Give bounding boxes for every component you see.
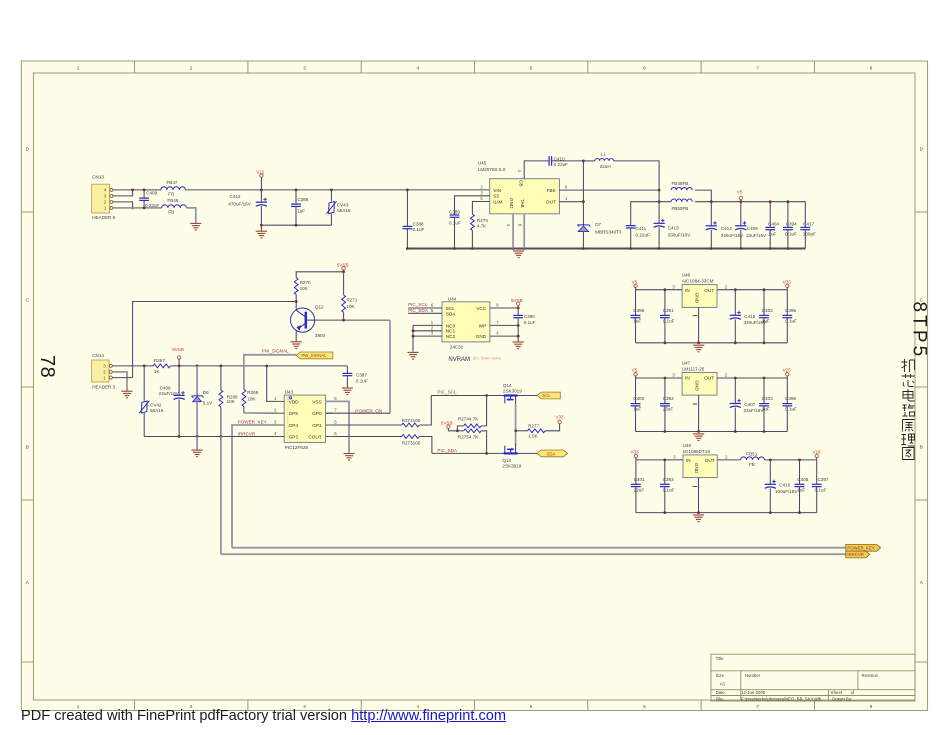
svg-text:C406: C406	[160, 385, 171, 390]
svg-text:C398: C398	[297, 197, 308, 202]
svg-text:C389: C389	[449, 209, 460, 214]
capacitor C400	[631, 378, 645, 432]
svg-text:U48: U48	[683, 443, 692, 448]
svg-text:OUT: OUT	[705, 458, 715, 463]
svg-text:Size: Size	[716, 673, 725, 678]
capacitor C398	[291, 190, 309, 225]
svg-text:SDA: SDA	[547, 451, 556, 456]
capacitor C393	[660, 460, 675, 513]
svg-text:GND: GND	[509, 198, 514, 209]
junction V5 rail at C414	[710, 200, 713, 203]
transistor Q14 2SK3019 MOSFET	[503, 383, 522, 404]
wire 5VSB to R274/R275 node	[448, 428, 457, 431]
wire V12 rail FB47 to U45 VIN	[186, 189, 490, 191]
svg-text:L1: L1	[601, 152, 607, 157]
wire CN14 pin1 to Q12 collector node	[133, 302, 297, 378]
wire U46 input rail	[636, 289, 683, 291]
power symbol V25	[783, 368, 792, 378]
U43 right pin numbers 8 7 6 5	[334, 396, 337, 436]
wire R274 left vertical	[457, 426, 463, 431]
svg-text:Title: Title	[716, 656, 725, 661]
U45 GND pin stub	[512, 214, 514, 249]
svg-text:4.7K: 4.7K	[477, 224, 487, 229]
junction VCC node	[517, 307, 520, 310]
wire Q14 drain to Q13 drain	[515, 404, 517, 445]
svg-text:Q14: Q14	[503, 383, 512, 388]
svg-text:C399: C399	[633, 308, 644, 313]
wire switch node to L1	[583, 160, 595, 162]
svg-text:TAB: TAB	[520, 199, 525, 208]
svg-text:PIC_SDA: PIC_SDA	[408, 308, 429, 313]
capacitor C390	[513, 308, 535, 341]
svg-text:CV42: CV42	[150, 402, 162, 407]
sheet title glyph dian	[903, 389, 915, 401]
junction V12/C412	[260, 189, 263, 192]
svg-text:PIC_SCL: PIC_SCL	[437, 389, 457, 394]
svg-text:330uF/16V: 330uF/16V	[668, 233, 691, 238]
svg-text:R267: R267	[154, 358, 165, 363]
svg-text:HEADER 6: HEADER 6	[92, 215, 115, 220]
junction bus at C412	[260, 224, 263, 227]
svg-text:R2744.7K: R2744.7K	[458, 416, 479, 421]
capacitor C412	[228, 190, 267, 225]
junction NC2	[412, 335, 415, 338]
svg-text:FB: FB	[168, 210, 174, 215]
capacitor C405	[795, 460, 809, 513]
wire PIC_SDA row	[432, 452, 504, 454]
junction C403 top	[763, 377, 766, 380]
power symbol V12	[256, 169, 265, 190]
net flag SCL	[537, 392, 560, 399]
svg-text:2: 2	[190, 65, 193, 70]
svg-text:SDA: SDA	[446, 311, 457, 316]
svg-text:C388: C388	[413, 221, 424, 226]
wire 5VSB to R270	[296, 272, 343, 278]
power symbol 5VSB second	[172, 347, 184, 366]
svg-text:GP0: GP0	[312, 411, 322, 416]
capacitor C388	[403, 190, 425, 249]
svg-text:GND: GND	[476, 334, 487, 339]
svg-text:PIC_SDA: PIC_SDA	[437, 448, 458, 453]
capacitor C394	[783, 202, 797, 249]
svg-text:GP1: GP1	[312, 423, 322, 428]
svg-text:CB: CB	[518, 180, 523, 187]
svg-text:PW_SIGNAL: PW_SIGNAL	[301, 353, 327, 358]
wire output node to C411	[631, 202, 659, 226]
wire SDA out	[517, 452, 538, 454]
sheet title glyph ji	[902, 359, 915, 372]
wire CN13 pin4 row	[113, 189, 161, 191]
junction 5VSB node	[342, 270, 345, 273]
svg-text:1uF: 1uF	[762, 318, 770, 323]
wire CN13 pin2 to pin1 row	[113, 202, 133, 208]
svg-text:3: 3	[303, 65, 306, 70]
svg-text:5VSB: 5VSB	[511, 298, 523, 303]
svg-text:R273100: R273100	[402, 441, 421, 446]
wire R272 to PIC_SCL corner	[419, 396, 431, 426]
capacitor C392	[660, 378, 674, 432]
svg-text:6: 6	[643, 65, 646, 70]
wire CN14 pin1 stub	[112, 377, 132, 379]
junction V5 node	[739, 200, 742, 203]
resistor R271 zigzag	[342, 295, 358, 312]
capacitor C387	[343, 366, 368, 388]
junction WP node	[517, 324, 520, 327]
wire CN14 pin3 row	[112, 365, 153, 367]
svg-text:C400: C400	[633, 396, 644, 401]
wire Q12 emitter to ground	[295, 330, 297, 342]
svg-text:FB48: FB48	[167, 198, 178, 203]
svg-text:V25: V25	[783, 368, 792, 373]
wire POWER_KEY	[232, 425, 278, 548]
svg-text:1uF: 1uF	[797, 487, 805, 492]
capacitor C415	[730, 290, 767, 343]
U48 adjust dash	[693, 485, 697, 487]
svg-text:GND: GND	[694, 380, 699, 391]
svg-text:10K: 10K	[346, 304, 355, 309]
svg-text:2SK3019: 2SK3019	[502, 464, 521, 469]
svg-text:PIC_SCL: PIC_SCL	[408, 302, 428, 307]
wire FB50 to V5 rail	[695, 201, 711, 203]
U46 bottom rail	[636, 342, 788, 344]
svg-text:FBK: FBK	[547, 188, 557, 193]
svg-text:OUT: OUT	[546, 199, 556, 204]
junction C409 bottom	[143, 207, 146, 210]
wire CB pin up	[524, 161, 549, 179]
net flag IRRCVR	[846, 551, 870, 558]
svg-text:NVRAM: NVRAM	[448, 357, 470, 363]
svg-text:FB49FB: FB49FB	[672, 181, 689, 186]
junction C407 top	[734, 377, 737, 380]
svg-text:C390: C390	[524, 314, 535, 319]
svg-text:V33: V33	[783, 279, 792, 284]
svg-text:R270: R270	[300, 280, 311, 285]
ground below U44 NC pins	[407, 352, 418, 359]
power symbol 5VSB third	[441, 420, 453, 429]
svg-text:R277: R277	[528, 424, 539, 429]
U44 pin numbers left	[431, 303, 434, 336]
svg-text:V18: V18	[812, 449, 821, 454]
capacitor C396	[782, 378, 797, 432]
svg-text:I2C: 0xA0~0xA6: I2C: 0xA0~0xA6	[473, 356, 501, 361]
svg-text:Sheet: Sheet	[831, 690, 843, 695]
junction CV43 top	[330, 189, 333, 192]
junction C392 top	[664, 377, 667, 380]
resistor R276	[471, 214, 489, 230]
svg-text:POWER_ON: POWER_ON	[355, 408, 382, 413]
svg-text:8TP5: 8TP5	[909, 302, 930, 360]
U43 pin stubs right	[326, 401, 333, 436]
svg-text:OUT: OUT	[704, 376, 714, 381]
wire FB48 out to ground drop	[187, 208, 196, 223]
wire U47 output rail	[717, 377, 787, 379]
wire U44 VCC	[490, 307, 518, 309]
svg-text:A3: A3	[720, 682, 726, 687]
svg-text:24C32: 24C32	[450, 345, 464, 350]
ruler row ticks left	[21, 212, 33, 662]
resistor R269 zigzag	[242, 390, 259, 407]
svg-text:C387: C387	[356, 373, 367, 378]
junction bus IRRCVR	[220, 435, 223, 438]
svg-text:U44: U44	[448, 296, 457, 301]
svg-text:10K: 10K	[300, 286, 309, 291]
FB49 arcs	[671, 181, 692, 190]
svg-text:CN13: CN13	[92, 175, 104, 180]
svg-text:5.1V: 5.1V	[203, 401, 213, 406]
svg-text:0.1uF: 0.1uF	[663, 487, 675, 492]
svg-text:POWER_KEY: POWER_KEY	[238, 420, 267, 425]
junction C391 top	[664, 288, 667, 291]
wire FB49 to V5 corner	[695, 190, 711, 202]
wire R276 bottom	[471, 230, 473, 248]
svg-text:File:: File:	[716, 696, 724, 701]
wire FBK pin to output node	[559, 189, 659, 191]
capacitor C416	[765, 460, 799, 513]
svg-text:22uF: 22uF	[634, 487, 645, 492]
U44 pin numbers right	[496, 303, 499, 336]
svg-text:VSS: VSS	[312, 399, 321, 404]
wire U48 input rail	[636, 459, 683, 461]
resistor R277	[528, 424, 546, 433]
ground below C387	[342, 388, 353, 395]
capacitor C414	[706, 202, 745, 249]
wire IRRCVR rail	[221, 553, 846, 555]
svg-text:D7: D7	[595, 222, 601, 227]
svg-text:LM1117-25: LM1117-25	[682, 366, 705, 371]
wire CN13 pin1 row	[113, 207, 162, 209]
ground rail	[407, 248, 805, 250]
FB51 arcs	[741, 451, 765, 467]
svg-text:0.1uF: 0.1uF	[524, 320, 536, 325]
sheet inner border	[33, 73, 915, 700]
wire bus ground stub	[196, 437, 198, 450]
wire IRRCVR to GP3	[221, 436, 278, 438]
svg-text:D6: D6	[203, 390, 209, 395]
svg-text:100pF: 100pF	[803, 231, 816, 236]
FB50 arcs	[671, 199, 692, 211]
svg-text:4: 4	[417, 65, 420, 70]
wire output node down	[658, 190, 660, 202]
svg-text:Number: Number	[745, 673, 761, 678]
svg-text:VIN: VIN	[493, 188, 501, 193]
resistor R272	[402, 418, 421, 427]
power symbol V18	[812, 449, 821, 460]
wire R273 to PIC_SDA corner	[419, 437, 432, 454]
svg-text:CN14: CN14	[92, 353, 104, 358]
svg-text:MBRS340T3: MBRS340T3	[595, 230, 622, 235]
junction C398 bottom	[295, 224, 298, 227]
regulator U48 LD1086DT18 body	[683, 443, 718, 477]
ruler column labels top	[77, 65, 873, 70]
bus wire IRRCVR left	[144, 436, 221, 438]
capacitor C389	[449, 209, 461, 248]
svg-text:NC0: NC0	[446, 323, 456, 328]
junction Q12 collector node	[295, 300, 298, 303]
resistor R268 10K	[220, 366, 222, 390]
junction R274/R275 left	[456, 429, 459, 432]
sheet title glyph tu	[903, 448, 915, 460]
U47 adjust dash	[693, 403, 697, 405]
wire OUT pin to switch node	[559, 201, 583, 203]
wire R269 bottom to GP5	[244, 407, 278, 414]
junction VDD tap	[265, 365, 268, 368]
svg-text:100uF/16V: 100uF/16V	[775, 489, 798, 494]
wire 5VSB row	[171, 365, 348, 367]
power symbol V5	[737, 190, 743, 202]
resistor R271 10K	[343, 272, 345, 295]
svg-text:VCC: VCC	[476, 306, 487, 311]
junction CN13 pin1/pin2	[131, 207, 134, 210]
svg-text:SCL: SCL	[446, 306, 456, 311]
ruler column ticks top	[135, 61, 815, 73]
eeprom U44 24C32 body	[442, 296, 490, 349]
wire PIC_SCL row	[431, 395, 504, 397]
capacitor C407	[730, 378, 765, 432]
wire L1 to FBK corner	[614, 161, 659, 190]
svg-text:WP: WP	[479, 323, 487, 328]
svg-text:GP3: GP3	[289, 435, 299, 440]
svg-text:C395: C395	[785, 308, 796, 313]
wire R277 to V33	[545, 424, 560, 431]
junction C398 top	[295, 189, 298, 192]
junction C394 top	[787, 200, 790, 203]
capacitor C399	[631, 290, 645, 343]
svg-text:5VSB: 5VSB	[337, 263, 349, 268]
junction D6 top	[196, 365, 199, 368]
wire NC tie vertical	[412, 325, 414, 351]
junction C405 top	[798, 459, 801, 462]
svg-text:C413: C413	[668, 226, 679, 231]
resistor R270	[294, 278, 311, 295]
junction CN13 pin4/pin3	[131, 189, 134, 192]
svg-text:6: 6	[643, 704, 646, 709]
svg-text:0.22uF: 0.22uF	[636, 233, 650, 238]
svg-text:C417: C417	[803, 222, 814, 227]
junction base/R271	[342, 319, 345, 322]
power symbol V33 U46	[783, 279, 792, 289]
svg-text:C392: C392	[663, 396, 674, 401]
junction dots U47 bottom rail	[664, 430, 766, 433]
svg-text:C407: C407	[744, 402, 755, 407]
svg-text:0.1uF: 0.1uF	[356, 379, 368, 384]
svg-text:FB: FB	[168, 192, 174, 197]
ground below C412	[256, 231, 267, 238]
capacitor C411	[626, 226, 650, 249]
svg-text:C416: C416	[779, 483, 790, 488]
power symbol V33 pullup	[555, 415, 564, 424]
capacitor C406	[159, 366, 185, 437]
junction switch node top	[582, 160, 585, 163]
microcontroller U43 PIC12F629 body	[284, 390, 325, 450]
power symbol V5 U46	[632, 279, 638, 289]
U43 pin stubs left	[278, 401, 285, 436]
svg-text:C393: C393	[663, 477, 674, 482]
zener diode D6 5.1V	[192, 366, 213, 437]
regulator U45 LM2576S-5.0 body	[478, 160, 560, 213]
svg-text:PW_SIGNAL: PW_SIGNAL	[262, 348, 289, 353]
junction C402 top	[763, 288, 766, 291]
ground below bus	[192, 450, 203, 457]
svg-text:0.1uF: 0.1uF	[785, 231, 797, 236]
wire R268 bottom	[220, 407, 222, 437]
svg-text:12-Jun-2005: 12-Jun-2005	[741, 690, 766, 695]
junction C404 top	[769, 200, 772, 203]
wire C412 gnd stub	[260, 225, 262, 231]
ruler column ticks bottom	[135, 700, 815, 711]
ground below FB48	[190, 223, 201, 230]
svg-text:IRRCVR: IRRCVR	[847, 552, 863, 557]
resistor R273	[402, 435, 421, 446]
capacitor C403	[759, 378, 773, 432]
ground below CN14 pin2	[121, 391, 132, 398]
sheet title glyph yuan	[903, 420, 915, 432]
resistor R268 zigzag	[219, 390, 238, 407]
junction NC1	[412, 329, 415, 332]
svg-text:B: B	[920, 445, 923, 450]
svg-text:V5: V5	[737, 190, 743, 195]
wire SS pin to C389	[455, 196, 490, 215]
svg-text:10K: 10K	[227, 399, 236, 404]
varistor CV42 56A16	[139, 366, 164, 437]
capacitor C410 0.22uF horizontal	[549, 156, 568, 167]
ground below U48	[693, 515, 704, 522]
wire VDD tap vertical	[267, 366, 278, 402]
regulator U46 AIC1084-33CM body	[682, 273, 717, 308]
svg-text:B: B	[26, 445, 29, 450]
ruler row ticks right	[915, 212, 928, 662]
transistor Q13 2SK3019 MOSFET	[502, 444, 521, 468]
svg-text:C401: C401	[634, 477, 645, 482]
svg-text:R271: R271	[346, 298, 357, 303]
junction U44 GND node	[517, 335, 520, 338]
wire VSS to ground	[326, 401, 349, 453]
svg-text:V33: V33	[555, 415, 564, 420]
junction bus C406	[178, 435, 181, 438]
svg-text:FB: FB	[749, 462, 755, 467]
svg-text:5: 5	[530, 704, 533, 709]
svg-text:0.1uF: 0.1uF	[413, 227, 425, 232]
power symbol 5VSB U44	[511, 298, 523, 308]
svg-text:C402: C402	[762, 308, 773, 313]
svg-text:1: 1	[77, 65, 80, 70]
wire R270 to Q12 collector	[295, 295, 297, 310]
junction 5VSB/C406	[178, 365, 181, 368]
title block frame	[711, 654, 915, 701]
wire U47 GND stub	[698, 395, 700, 431]
FB47 arcs	[161, 180, 186, 196]
svg-text:C403: C403	[762, 396, 773, 401]
svg-text:Drawn By:: Drawn By:	[832, 696, 852, 701]
svg-text:AIC1084-33CM: AIC1084-33CM	[682, 279, 714, 284]
resistor R267	[153, 358, 171, 374]
junction bus D6	[196, 435, 199, 438]
ruler column labels bottom	[77, 704, 873, 709]
wire bus below C412/C398/CV43	[261, 224, 331, 226]
wire U44 SCL	[408, 307, 442, 309]
svg-text:NC1: NC1	[446, 329, 456, 334]
wire SCL out	[517, 395, 538, 397]
svg-text:R276: R276	[477, 218, 488, 223]
svg-text:7: 7	[756, 65, 759, 70]
svg-text:0.22uF: 0.22uF	[145, 203, 159, 208]
svg-text:FB51: FB51	[746, 451, 757, 456]
capacitor C401	[631, 460, 645, 513]
ruler row labels right	[920, 147, 924, 586]
svg-text:R269: R269	[247, 390, 258, 395]
svg-text:3904: 3904	[315, 333, 326, 338]
capacitor C391	[660, 290, 675, 343]
wire IRRCVR vertical	[220, 437, 222, 555]
